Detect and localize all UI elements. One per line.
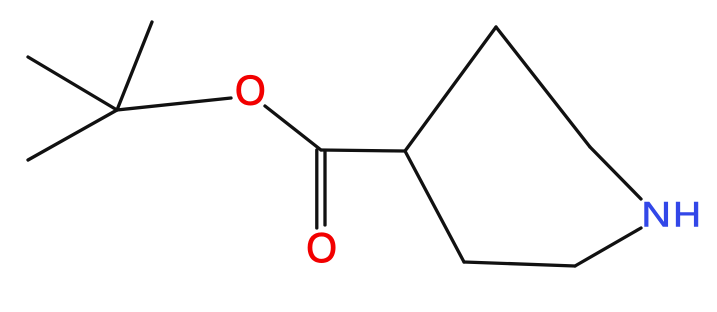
wire: tert-butyl methyl 3 (up)	[117, 22, 152, 110]
wire: ring C4-C5	[405, 151, 464, 262]
wire: carbonyl C to ring C4	[321, 150, 405, 151]
wire: C=O double bond line 1	[315, 150, 318, 228]
svg-text:O: O	[306, 224, 337, 271]
svg-text:O: O	[235, 66, 266, 113]
wire: C=O double bond line 2	[323, 152, 326, 225]
wire: ring C6-N1	[575, 228, 641, 266]
wire: ester O to carbonyl C	[265, 106, 321, 150]
wire: ring C5-C6	[464, 262, 575, 266]
svg-text:H: H	[673, 195, 701, 234]
wire: ring C4-C3 (left tent leg)	[405, 27, 496, 151]
wire: tert-butyl methyl 2 (lower-left)	[28, 110, 117, 160]
wire: ring C3-C2 (right tent leg)	[496, 27, 590, 147]
svg-text:N: N	[641, 195, 671, 234]
wire: C(CH3)3 to ester O	[117, 98, 231, 110]
wire: ring C2-N1	[590, 147, 641, 199]
wire: tert-butyl methyl 1 (upper-left)	[28, 57, 117, 110]
